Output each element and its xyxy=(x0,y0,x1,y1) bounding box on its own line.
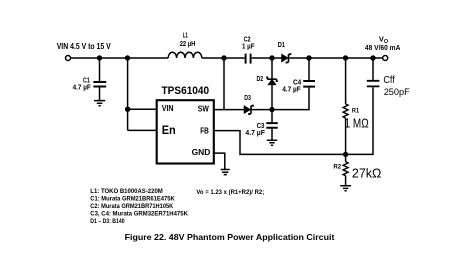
wire rail L1 to C2 xyxy=(202,57,245,59)
wire C1 to ground xyxy=(99,87,101,100)
svg-text:Figure 22. 48V Phantom Power: Figure 22. 48V Phantom Power Application… xyxy=(125,232,335,242)
svg-text:GND: GND xyxy=(192,147,211,157)
capacitor C2 xyxy=(246,54,251,64)
node: D2 top xyxy=(269,55,274,60)
svg-text:22 µH: 22 µH xyxy=(180,41,196,48)
diode D3 xyxy=(244,106,250,113)
svg-text:D1: D1 xyxy=(278,42,285,49)
svg-text:D1 – D3: B140: D1 – D3: B140 xyxy=(90,218,125,225)
svg-text:SW: SW xyxy=(198,103,209,113)
wire R2 bottom xyxy=(345,176,347,186)
resistor R2 xyxy=(343,162,348,176)
svg-text:4.7 µF: 4.7 µF xyxy=(73,84,92,91)
wire R1 top xyxy=(345,58,347,104)
wire SW pin xyxy=(214,109,245,111)
output terminal xyxy=(383,56,388,61)
ground GND pin xyxy=(221,170,230,175)
svg-text:R1: R1 xyxy=(352,107,360,114)
node: VIN tap xyxy=(125,55,130,60)
capacitor C1 xyxy=(93,82,106,87)
wire R1 bottom xyxy=(345,118,347,154)
ground C1 xyxy=(94,101,105,106)
svg-text:D2: D2 xyxy=(257,76,264,83)
wire C4 top xyxy=(308,58,310,80)
wire D2 cathode to rail xyxy=(271,58,273,79)
wire Cff branch xyxy=(372,58,374,80)
wire VIN/En branch vertical xyxy=(127,58,129,130)
diode D2 xyxy=(266,77,278,81)
resistor R1 xyxy=(343,104,348,118)
svg-text:Cff: Cff xyxy=(383,75,394,86)
ground R2 xyxy=(340,186,351,191)
svg-text:VIN 4.5 V to 15 V: VIN 4.5 V to 15 V xyxy=(57,41,111,51)
svg-text:C1: Murata GRM21BR61E475K: C1: Murata GRM21BR61E475K xyxy=(90,196,175,203)
svg-text:D3: D3 xyxy=(244,95,251,102)
svg-text:VIN: VIN xyxy=(162,104,174,113)
capacitor C4 xyxy=(303,81,315,87)
ground C3 xyxy=(267,140,277,145)
svg-text:En: En xyxy=(162,123,176,137)
svg-text:250pF: 250pF xyxy=(384,87,410,98)
node: D2/D3/C3/C4 junction xyxy=(269,107,274,112)
inductor L1 xyxy=(168,52,202,58)
wire C3 branch xyxy=(271,110,273,123)
node: R1 top xyxy=(343,55,348,60)
node: SW tap xyxy=(221,55,226,60)
wire to En pin xyxy=(128,129,157,131)
svg-text:C3: C3 xyxy=(257,123,265,130)
diode D1 xyxy=(282,55,288,62)
svg-text:L1: TOKO B1000AS-220M: L1: TOKO B1000AS-220M xyxy=(90,188,163,195)
capacitor C3 xyxy=(266,123,277,128)
wire rail D1 to output xyxy=(289,57,382,59)
wire rail down to SW line xyxy=(223,58,225,110)
wire D3 to C4 corner xyxy=(251,88,309,110)
svg-text:Vo = 1.23 x (R1+R2)/ R2;: Vo = 1.23 x (R1+R2)/ R2; xyxy=(196,189,264,196)
svg-text:L1: L1 xyxy=(183,33,188,40)
wire R2 top xyxy=(345,154,347,161)
svg-text:C3, C4: Murata GRM32ER71H475K: C3, C4: Murata GRM32ER71H475K xyxy=(90,210,188,217)
capacitor Cff xyxy=(367,81,380,87)
wire to VIN pin xyxy=(128,108,157,110)
svg-text:4.7 µF: 4.7 µF xyxy=(282,87,301,94)
wire FB pin xyxy=(214,131,346,155)
wire C1 branch xyxy=(99,58,101,81)
svg-text:FB: FB xyxy=(200,126,209,136)
wire D2 anode to junction xyxy=(271,85,273,110)
node: VIN/En junction xyxy=(125,107,130,112)
IC U1 TPS61040 xyxy=(157,100,214,163)
wire C3 to ground xyxy=(271,129,273,140)
node: Cff top xyxy=(370,55,375,60)
node: FB divider junction xyxy=(343,152,348,157)
svg-text:4.7 µF: 4.7 µF xyxy=(245,130,265,137)
svg-text:1 MΩ: 1 MΩ xyxy=(345,116,369,131)
svg-text:27kΩ: 27kΩ xyxy=(352,166,381,180)
svg-text:C2: C2 xyxy=(244,36,251,43)
svg-text:R2: R2 xyxy=(333,164,341,171)
svg-text:1 µF: 1 µF xyxy=(242,43,255,50)
node: C1 tap xyxy=(97,55,102,60)
wire GND pin xyxy=(214,153,225,169)
svg-text:TPS61040: TPS61040 xyxy=(162,85,210,97)
svg-text:C2: Murata GRM21BR71H105K: C2: Murata GRM21BR71H105K xyxy=(90,203,173,210)
wire rail C2 to D1 xyxy=(252,57,282,59)
input terminal xyxy=(66,56,71,61)
svg-text:48 V/60 mA: 48 V/60 mA xyxy=(365,45,401,52)
node: C4 top xyxy=(306,55,311,60)
wire input rail left xyxy=(71,57,169,59)
wire Cff bottom to FB node xyxy=(346,87,373,154)
